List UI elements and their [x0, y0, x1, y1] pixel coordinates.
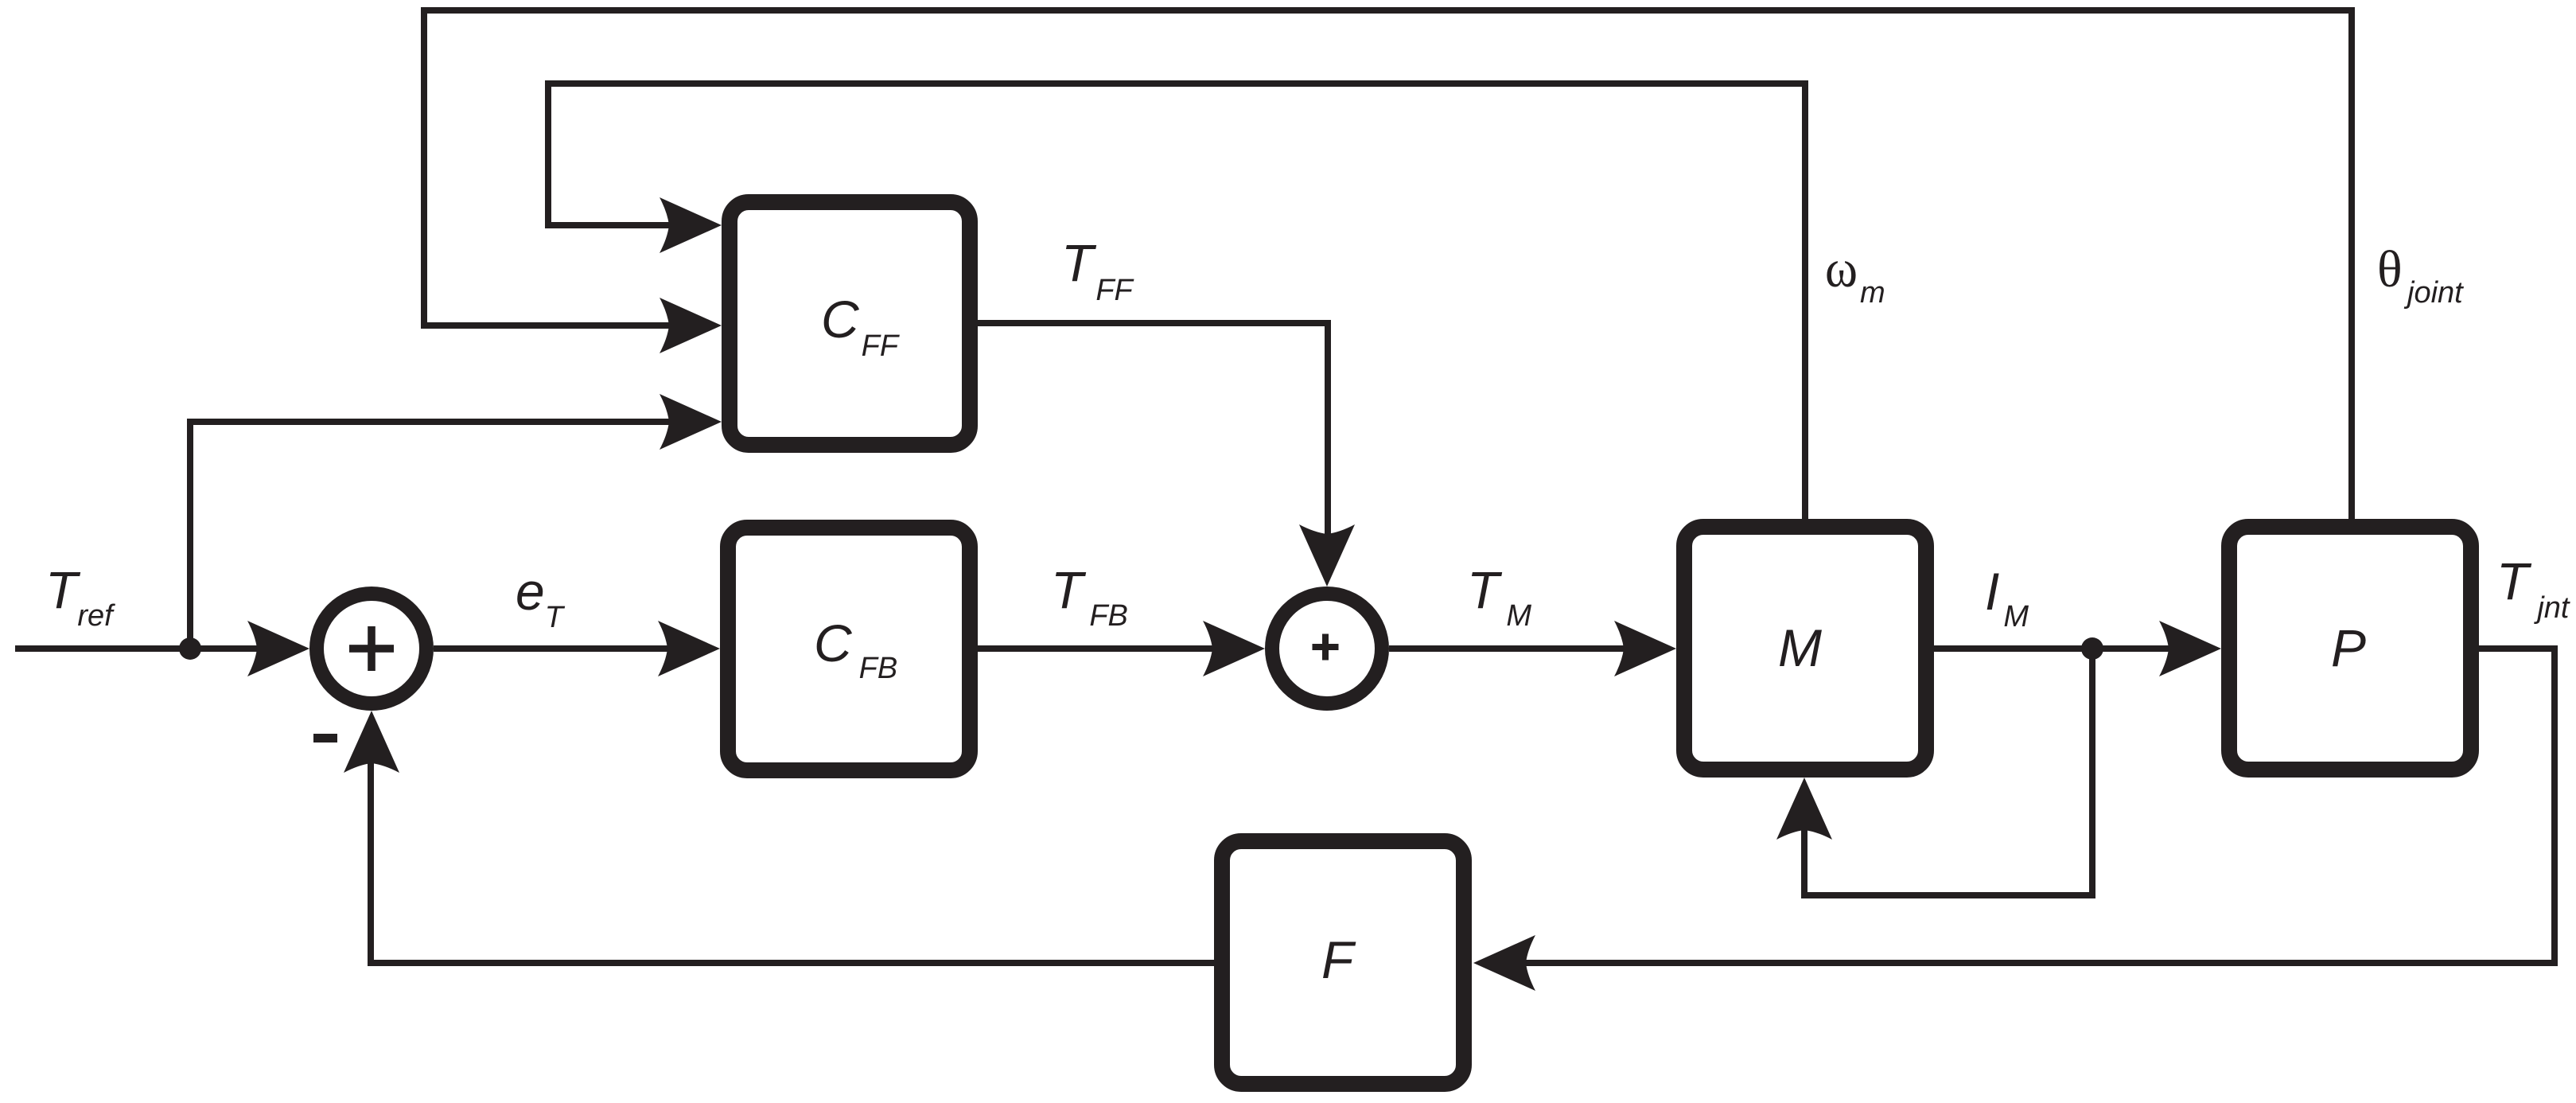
wire TFF CFF output down into sum2: [978, 323, 1328, 538]
block F: [1222, 841, 1464, 1084]
arrow into M bottom: [1776, 778, 1832, 840]
wire IM small loop to M bottom: [1804, 649, 2092, 895]
minus sign: [313, 734, 337, 742]
svg-text:F: F: [1321, 930, 1356, 989]
wire Tref branch up to CFF bottom input: [190, 422, 673, 649]
arrow into sum2 left: [1203, 621, 1265, 676]
summing junction 1: [317, 594, 426, 704]
plus sign sum2: [1313, 634, 1339, 661]
arrow into sum1 bottom: [344, 711, 399, 773]
arrow into M left: [1614, 621, 1676, 676]
block M: [1684, 527, 1926, 770]
block CFB: [728, 528, 970, 770]
wire omega_m feedback M top to CFF top input: [548, 84, 1805, 519]
wire eT sum1 to CFB: [434, 645, 671, 652]
arrow into CFB: [658, 621, 720, 676]
summing junction 2: [1272, 594, 1382, 704]
wire theta_joint feedback P top to CFF middle input: [424, 10, 2352, 519]
wire TFB CFB to sum2: [978, 645, 1216, 652]
block P: [2229, 527, 2471, 770]
svg-text:θ: θ: [2377, 240, 2403, 298]
svg-text:ω: ω: [1825, 238, 1858, 298]
junction dot at Tref branch: [179, 637, 201, 660]
arrow into sum1 left: [247, 621, 309, 676]
arrowheads: [247, 197, 2221, 991]
wire Tref main input: [15, 645, 263, 652]
svg-text:joint: joint: [2403, 276, 2464, 310]
arrow into CFF bottom input: [660, 394, 722, 450]
block CFF: [730, 202, 970, 445]
svg-text:P: P: [2331, 618, 2366, 677]
arrow into sum2 top: [1299, 524, 1355, 587]
arrow into F right: [1473, 935, 1535, 991]
arrow into CFF top input: [660, 197, 722, 253]
plus sign sum1: [349, 626, 394, 671]
svg-text:m: m: [1860, 276, 1885, 310]
wire TM sum2 to M: [1389, 645, 1628, 652]
arrow into P left: [2159, 621, 2221, 676]
wire F output to sum1 minus input: [371, 759, 1214, 963]
junction dot at IM branch: [2081, 637, 2103, 660]
arrow into CFF middle input: [660, 298, 722, 353]
wire IM M to P: [1934, 645, 2173, 652]
svg-text:M: M: [1778, 618, 1822, 677]
wire Tjnt P output down to F: [1522, 649, 2555, 963]
